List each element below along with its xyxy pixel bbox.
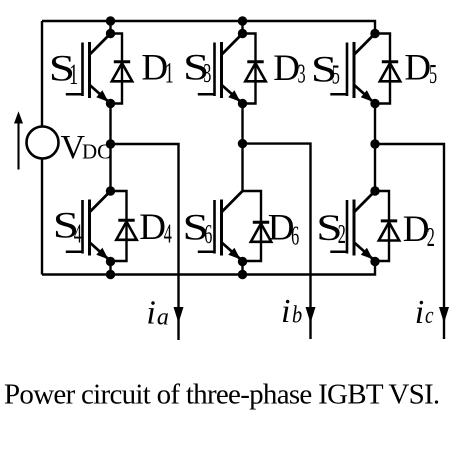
node: S1 emitter node — [106, 99, 115, 108]
transistor S2 (IGBT) — [330, 191, 375, 261]
svg-text:6: 6 — [291, 220, 299, 250]
diode D6 (antiparallel) — [243, 191, 272, 261]
svg-text:i: i — [281, 293, 290, 330]
node: S2 emitter node — [370, 257, 379, 266]
wire: leg C midsection — [374, 104, 376, 192]
node: S3 collector node — [238, 29, 247, 38]
label VDC — [61, 129, 112, 166]
voltage source VDC circle — [27, 127, 59, 159]
node: S4 emitter node — [106, 257, 115, 266]
svg-text:6: 6 — [204, 219, 212, 249]
label ib — [281, 293, 302, 330]
label S4 — [53, 205, 82, 248]
wire: leg B midsection — [241, 104, 243, 192]
label D5 — [404, 48, 437, 90]
label D1 — [141, 48, 173, 90]
arrowhead: phase a current — [174, 307, 184, 323]
label D3 — [273, 48, 305, 89]
node: phase b output node — [238, 139, 247, 148]
svg-text:1: 1 — [69, 59, 78, 92]
junction: leg B / bottom rail — [238, 270, 247, 279]
label S2 — [316, 208, 346, 249]
wire: top DC rail — [42, 21, 375, 34]
svg-text:5: 5 — [332, 59, 340, 89]
svg-text:2: 2 — [427, 222, 435, 252]
label D4 — [139, 207, 172, 249]
node: phase a output node — [106, 139, 115, 148]
diode D2 (antiparallel) — [375, 191, 399, 261]
wire: leg A bottom stub — [109, 262, 111, 275]
svg-text:i: i — [415, 294, 424, 331]
diode D1 (antiparallel) — [111, 34, 133, 104]
wire: phase a output — [111, 144, 179, 340]
node: S2 collector node — [370, 186, 379, 195]
node: S5 collector node — [370, 29, 379, 38]
label S3 — [183, 47, 211, 88]
transistor S6 (IGBT) — [198, 191, 243, 261]
svg-text:a: a — [157, 304, 169, 330]
junction: leg A / top rail — [106, 16, 115, 25]
node: S4 collector node — [106, 186, 115, 195]
svg-text:1: 1 — [165, 57, 174, 90]
wire: bottom DC rail — [42, 262, 375, 275]
wire: phase c output — [375, 144, 444, 339]
diode D5 (antiparallel) — [375, 34, 400, 104]
label ia — [146, 295, 169, 332]
label S5 — [311, 49, 340, 90]
junction: leg A / bottom rail — [106, 270, 115, 279]
svg-text:D: D — [404, 48, 431, 89]
label D2 — [403, 209, 435, 252]
svg-text:D: D — [403, 209, 430, 250]
wire: leg A midsection — [109, 104, 111, 192]
svg-text:b: b — [292, 301, 302, 328]
node: S5 emitter node — [370, 99, 379, 108]
transistor S5 (IGBT) — [330, 34, 375, 104]
wire: phase b output — [243, 144, 311, 339]
diode D3 (antiparallel) — [243, 34, 266, 104]
svg-text:4: 4 — [164, 218, 172, 248]
node: S6 emitter node — [238, 257, 247, 266]
svg-text:3: 3 — [298, 58, 306, 88]
label S1 — [49, 48, 78, 91]
diode D4 (antiparallel) — [111, 191, 137, 261]
voltage source polarity arrow — [14, 111, 23, 169]
label S6 — [183, 207, 213, 248]
svg-text:4: 4 — [74, 218, 82, 248]
label D6 — [268, 208, 299, 251]
svg-text:i: i — [146, 295, 155, 332]
transistor S4 (IGBT) — [66, 191, 111, 261]
wire: leg B top stub — [241, 21, 243, 34]
node: S3 emitter node — [238, 99, 247, 108]
node: phase c output node — [370, 139, 379, 148]
svg-text:3: 3 — [203, 58, 211, 88]
wire: left DC bus vertical — [41, 21, 43, 275]
transistor S1 (IGBT) — [66, 34, 111, 104]
transistor S3 (IGBT) — [198, 34, 243, 104]
label ic — [415, 294, 434, 331]
svg-text:2: 2 — [338, 219, 346, 249]
wire: leg A top stub — [109, 21, 111, 34]
junction: leg B / top rail — [238, 16, 247, 25]
arrowhead: phase b current — [306, 307, 316, 323]
svg-text:Power circuit of three-phase I: Power circuit of three-phase IGBT VSI. — [4, 379, 439, 411]
arrowhead: phase c current — [439, 307, 449, 323]
svg-text:D: D — [139, 207, 166, 248]
wire: leg B bottom stub — [241, 262, 243, 275]
svg-text:D: D — [273, 48, 300, 89]
node: S1 collector node — [106, 29, 115, 38]
svg-text:c: c — [425, 302, 434, 329]
svg-text:5: 5 — [429, 59, 437, 89]
